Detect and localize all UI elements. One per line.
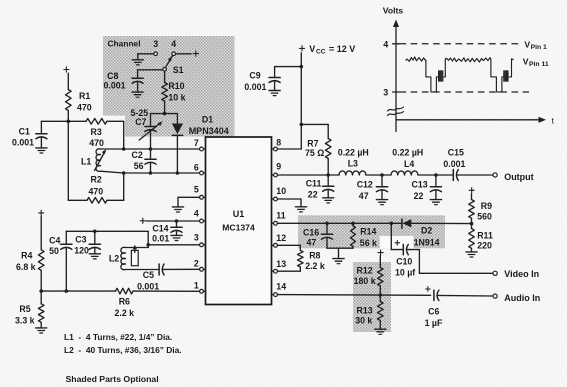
label L3 (348, 159, 358, 169)
wire R13 to ground (379, 321, 381, 329)
graph label t (552, 116, 555, 126)
node C2 on pin6 line (149, 171, 153, 175)
label 2.2 k (R8) (305, 261, 325, 271)
wire pin14 audio line (277, 294, 430, 297)
ground below C16/R14 (333, 259, 344, 264)
wire pin4 line (147, 220, 200, 222)
wire R3 to pin7 corner (107, 121, 124, 149)
wire video line (419, 272, 493, 274)
graph dashed level VPin11 base (400, 91, 530, 93)
wire node A down (67, 121, 69, 200)
wire C11 stub (327, 175, 329, 186)
capacitor C12 (376, 187, 387, 192)
label 47 (C16) (307, 237, 317, 247)
label R5 (19, 304, 30, 314)
wire top rail C4-C3 (66, 230, 148, 232)
wire pin11 line (277, 222, 401, 224)
label 22 (C11) (308, 190, 318, 200)
terminal Video In (493, 271, 497, 275)
inductor L4 (391, 171, 418, 175)
node C4 on pin1 line (65, 289, 69, 293)
capacitor C9 (269, 78, 280, 83)
variable capacitor C7 (139, 121, 162, 140)
label 470 (R2) (89, 187, 104, 197)
node A (R1/C1/R3/R2) (67, 120, 71, 124)
label 1 uF (C6) (425, 318, 443, 328)
label C1 (19, 127, 30, 137)
label C4 (49, 236, 60, 246)
graph label Volts (383, 6, 404, 16)
ground below C13 (430, 200, 441, 205)
label R6 (119, 296, 130, 306)
wire junction to C7 (151, 114, 165, 127)
label 6.8 k (R4) (16, 262, 36, 272)
wire R8 to pin13 (277, 267, 300, 271)
wire C5 to pin2 (162, 268, 199, 270)
inductor L1 top stub (101, 148, 124, 150)
capacitor C6 (434, 290, 439, 300)
wire C13 ground lead (435, 190, 437, 199)
shaded optional region: C16/R14/D2 band (298, 215, 445, 248)
switch S1 pole circle (163, 68, 167, 72)
wire C13 stub (435, 175, 437, 187)
node pin3 junction (146, 243, 150, 247)
graph waveform segment 1 (406, 57, 439, 92)
wire R2 to pin6 corner (107, 173, 124, 200)
diode D1 (varactor) (172, 124, 183, 136)
label VCC = 12 V (309, 44, 355, 55)
label C14 (152, 223, 168, 233)
capacitor C15 (453, 170, 458, 181)
node R12/R13 on audio line (379, 293, 383, 297)
label contact 3 (153, 39, 158, 49)
plus above R9 (469, 188, 474, 193)
wire node B to R5 (40, 291, 42, 304)
switch S1 contact 4 circle (172, 52, 176, 56)
node VCC-R7 (300, 123, 304, 127)
capacitor C5 (159, 264, 164, 275)
shaded optional region: channel switch area (103, 36, 235, 137)
wire VCC to R7 (301, 124, 328, 138)
label 1N914 (414, 237, 440, 247)
graph tick 4 (383, 40, 399, 50)
node pin7 line left (122, 147, 126, 151)
wire C10 branch down (391, 223, 403, 249)
label R9 (481, 201, 492, 211)
wire C16 stub (326, 223, 328, 234)
wire node A to R3 (68, 120, 86, 122)
note L1 winding (64, 332, 172, 342)
plus at pin4 supply (140, 218, 145, 223)
wire junction to D1 (165, 114, 178, 124)
node R14 on pin11 line (351, 222, 355, 226)
label 2.2 k (R6) (115, 308, 135, 318)
wire C12 stub (381, 175, 383, 187)
wire to R2 (68, 199, 87, 201)
graph label VPin 11 (523, 56, 549, 67)
ground below C8 (132, 92, 143, 97)
label 470 (R3) (89, 138, 104, 148)
inductor L2 core (131, 245, 138, 266)
wire R10 to tank junction (164, 101, 166, 114)
wire plus to R9 (471, 194, 473, 200)
inductor L2 bottom stub (126, 269, 159, 271)
ground at pin10 (295, 207, 306, 212)
wire pin10 to ground (277, 199, 301, 206)
L1 adjust arrow (95, 149, 107, 170)
label C13 (412, 179, 428, 189)
label C2 (132, 150, 143, 160)
label R11 (477, 231, 493, 241)
wire plus to R1 (67, 73, 69, 89)
node C13 (434, 173, 438, 177)
note shaded parts (66, 374, 159, 384)
label 10 k (R10) (168, 93, 185, 103)
wire R12 to node (379, 286, 381, 295)
wire D1 to pin6 line (176, 135, 178, 173)
capacitor C14 (171, 227, 182, 232)
inductor L3 (339, 171, 366, 175)
wire S1 pole to R10 (164, 71, 166, 82)
wire contact-3 to ground (138, 54, 154, 60)
wire C4 upper lead (65, 231, 67, 244)
label C12 (357, 179, 373, 189)
capacitor C13 (430, 187, 441, 192)
op-amp U1 MC1374 IC body (206, 137, 272, 305)
label 120 (C3) (74, 245, 89, 255)
wire pin5 to ground (178, 197, 200, 206)
label R8 (309, 251, 320, 261)
graph colorburst 2 (504, 71, 508, 81)
label 30 k (R13) (355, 316, 372, 326)
plus at switch (193, 51, 198, 56)
label 0.22 uH (L3) (338, 147, 369, 157)
label 180 k (R12) (354, 276, 376, 286)
graph x-axis (396, 117, 546, 123)
resistor R2 (87, 198, 107, 204)
ground below R5 (36, 328, 47, 333)
wire R7 to pin9 line (327, 159, 329, 176)
wire plus to R12 (379, 256, 381, 268)
plus at C10 (395, 241, 400, 246)
label C11 (306, 178, 322, 188)
node C16 on pin11 line (325, 222, 329, 226)
wire R5 to ground (40, 322, 42, 327)
node B (R4/R5/pin1) (39, 289, 43, 293)
resistor R13 (378, 295, 384, 321)
diode D2 (402, 219, 411, 228)
ground below C12 (376, 200, 387, 205)
resistor R12 (378, 268, 384, 287)
wire C8 to ground (137, 82, 139, 92)
label C9 (249, 71, 260, 81)
wire C2 stub (150, 149, 152, 159)
ground below R11 (466, 252, 477, 257)
wire VCC vertical (300, 53, 302, 149)
inductor L1 bottom stub (101, 171, 124, 173)
wire C4 lower lead (65, 248, 67, 292)
label 56 (C2) (134, 161, 144, 171)
label R10 (168, 81, 184, 91)
ground at switch contact 3 (132, 60, 143, 65)
wire C13 to C15 (436, 174, 453, 176)
label 50 (C4) (49, 246, 59, 256)
label C6 (428, 307, 439, 317)
capacitor C11 (323, 186, 334, 191)
label C15 (448, 147, 464, 157)
node C14 (175, 219, 179, 223)
wire pin7 line (124, 148, 200, 150)
graph y-axis (393, 20, 399, 132)
resistor R9 (469, 200, 475, 219)
label L2 (109, 254, 119, 264)
inductor L1 (96, 149, 101, 172)
label Channel (108, 39, 141, 49)
capacitor C2 (145, 159, 156, 164)
wire C6 to audio terminal (437, 294, 493, 297)
wire C1 to ground (40, 137, 42, 147)
wire C14 ground lead (176, 231, 178, 235)
label MPN3404 (189, 126, 229, 136)
wire C16-R14 bottom join (327, 248, 353, 258)
resistor R11 (469, 224, 475, 249)
wire C10 to video line (407, 250, 420, 274)
graph tick 3 (383, 88, 399, 98)
label 10 uf (C10) (395, 268, 415, 278)
label R2 (91, 175, 102, 185)
node C7/C2 on pin7 line (149, 147, 153, 151)
wire C15 to output (457, 174, 494, 176)
IC pin circles and stubs (200, 147, 278, 296)
wire pin8 (277, 148, 301, 150)
label 560 (R9) (477, 212, 492, 222)
label 470 (R1) (77, 102, 92, 112)
node R7/C11 (326, 173, 330, 177)
wire R9 to node C (471, 218, 473, 223)
note L2 winding (64, 345, 182, 355)
label C10 (396, 257, 412, 267)
terminal Audio In (493, 294, 497, 298)
wire node A to C1 (41, 121, 68, 134)
plus at C6 (426, 287, 431, 292)
resistor R4 (38, 250, 44, 270)
node VCC-C9 (300, 65, 304, 69)
ground at pin5 (172, 207, 183, 212)
label R7 (307, 139, 318, 149)
label Output (504, 172, 534, 182)
wire C7 to pin7 line (150, 130, 152, 149)
label L4 (404, 159, 414, 169)
wire C3 ground lead (94, 248, 96, 254)
label 0.001 (C9) (244, 82, 266, 92)
capacitor C16 (321, 234, 332, 239)
graph colorburst 1 (439, 71, 443, 81)
plus above R4 (39, 210, 44, 215)
switch S1 contact 3 circle (154, 52, 158, 56)
resistor R14 (351, 223, 356, 248)
graph waveform segment 2 (444, 58, 504, 92)
node C10 branch (390, 222, 394, 226)
label 220 (R11) (477, 240, 492, 250)
wire L4 to C13 (418, 174, 436, 176)
node pin6 line left (122, 171, 126, 175)
switch S1 arm (165, 56, 172, 68)
node D1 on pin6 line (176, 171, 180, 175)
node C12 (380, 173, 384, 177)
wire C12 ground lead (381, 190, 383, 199)
wire plus to R4 (40, 216, 42, 249)
plus above R12 (378, 250, 383, 255)
wire C2 to pin6 line (150, 162, 152, 173)
wire D2 to R9/R11 (411, 222, 471, 224)
node tank junction (163, 112, 167, 116)
wire branch to C8 (138, 70, 163, 79)
label 0.001 (C15) (443, 159, 465, 169)
wire C16 lower lead (326, 237, 328, 248)
label R12 (357, 265, 373, 275)
label 0.001 (C1) (12, 138, 34, 148)
ground below R13 (375, 329, 386, 334)
wire R11 to ground (471, 248, 473, 251)
resistor R8 (298, 250, 304, 267)
resistor R6 (116, 288, 134, 294)
label 3.3 k (R5) (15, 316, 35, 326)
wire pin1 line left (41, 290, 115, 292)
wire contact 4 to plus (176, 53, 192, 55)
wire R6 to pin1 (133, 290, 200, 292)
label Audio In (504, 293, 540, 303)
label 0.001 (C5) (137, 281, 159, 291)
label 22 (C13) (414, 191, 424, 201)
terminal Output (493, 173, 497, 177)
IC pin number labels (194, 137, 286, 291)
capacitor C4 (61, 244, 72, 249)
label R13 (357, 305, 373, 315)
wire C12 to L4 (382, 174, 391, 176)
label 0.001 (C8) (104, 81, 126, 91)
node C (R9/R11/D2) (470, 222, 474, 226)
graph waveform segment 3 (509, 59, 514, 77)
label R1 (79, 91, 90, 101)
label Video In (504, 269, 539, 279)
label R3 (91, 127, 102, 137)
label C16 (303, 228, 319, 238)
resistor R7 (325, 139, 331, 159)
label C8 (107, 71, 118, 81)
label L1 (81, 156, 91, 166)
wire L3 to C12 (366, 174, 382, 176)
label S1 (173, 65, 184, 75)
shaded optional region: R12/R13 column (353, 262, 391, 332)
label 47 (C12) (359, 191, 369, 201)
plus above R1 (64, 67, 69, 72)
capacitor C1 (36, 134, 47, 139)
label 56 k (R14) (360, 238, 377, 248)
inductor L2 top stub (126, 247, 149, 249)
wire to C9 (275, 67, 302, 78)
wire pin3 line (148, 244, 199, 246)
node C3 on rail (93, 230, 97, 234)
graph label VPin 1 (524, 40, 547, 51)
capacitor C3 (89, 244, 100, 249)
graph axis break (388, 107, 404, 116)
capacitor C8 (132, 78, 143, 83)
plus at VCC (299, 46, 304, 51)
resistor R3 (86, 119, 107, 125)
wire pin12 to R8 (277, 245, 300, 250)
graph dashed level VPin1 (400, 43, 520, 45)
label C7 (135, 117, 146, 127)
label 0.01 (C14) (152, 233, 169, 243)
ground below C9 (269, 91, 280, 96)
ground below C1 (36, 148, 47, 153)
wire C3 upper lead (94, 231, 96, 244)
wire C9 to ground (274, 81, 276, 90)
ground below C11 (323, 198, 334, 203)
wire rail corner to pin3 node (147, 231, 149, 247)
label D1 (202, 115, 213, 125)
label C3 (75, 235, 86, 245)
wire R4 to node B (40, 270, 42, 291)
label contact 4 (171, 39, 176, 49)
label 5-25 (C7) (131, 108, 149, 118)
label D2 (421, 225, 432, 235)
label 0.22 uH (L4) (392, 147, 423, 157)
capacitor C10 (403, 244, 408, 254)
label R4 (21, 250, 32, 260)
label C5 (143, 270, 154, 280)
ground below C14 (171, 235, 182, 240)
ground below C3 (89, 254, 100, 259)
resistor R10 (162, 83, 168, 102)
label 75 ohm (R7) (305, 148, 324, 158)
resistor R1 (66, 90, 72, 111)
resistor R5 (38, 304, 44, 323)
wire C14 stub (176, 221, 178, 227)
inductor L2 (121, 247, 126, 269)
wire pin9 line (277, 174, 339, 176)
wire C11 ground lead (327, 190, 329, 198)
label R14 (360, 226, 376, 236)
wire pin6 line (124, 172, 200, 174)
wire R1 to node A (67, 111, 69, 122)
